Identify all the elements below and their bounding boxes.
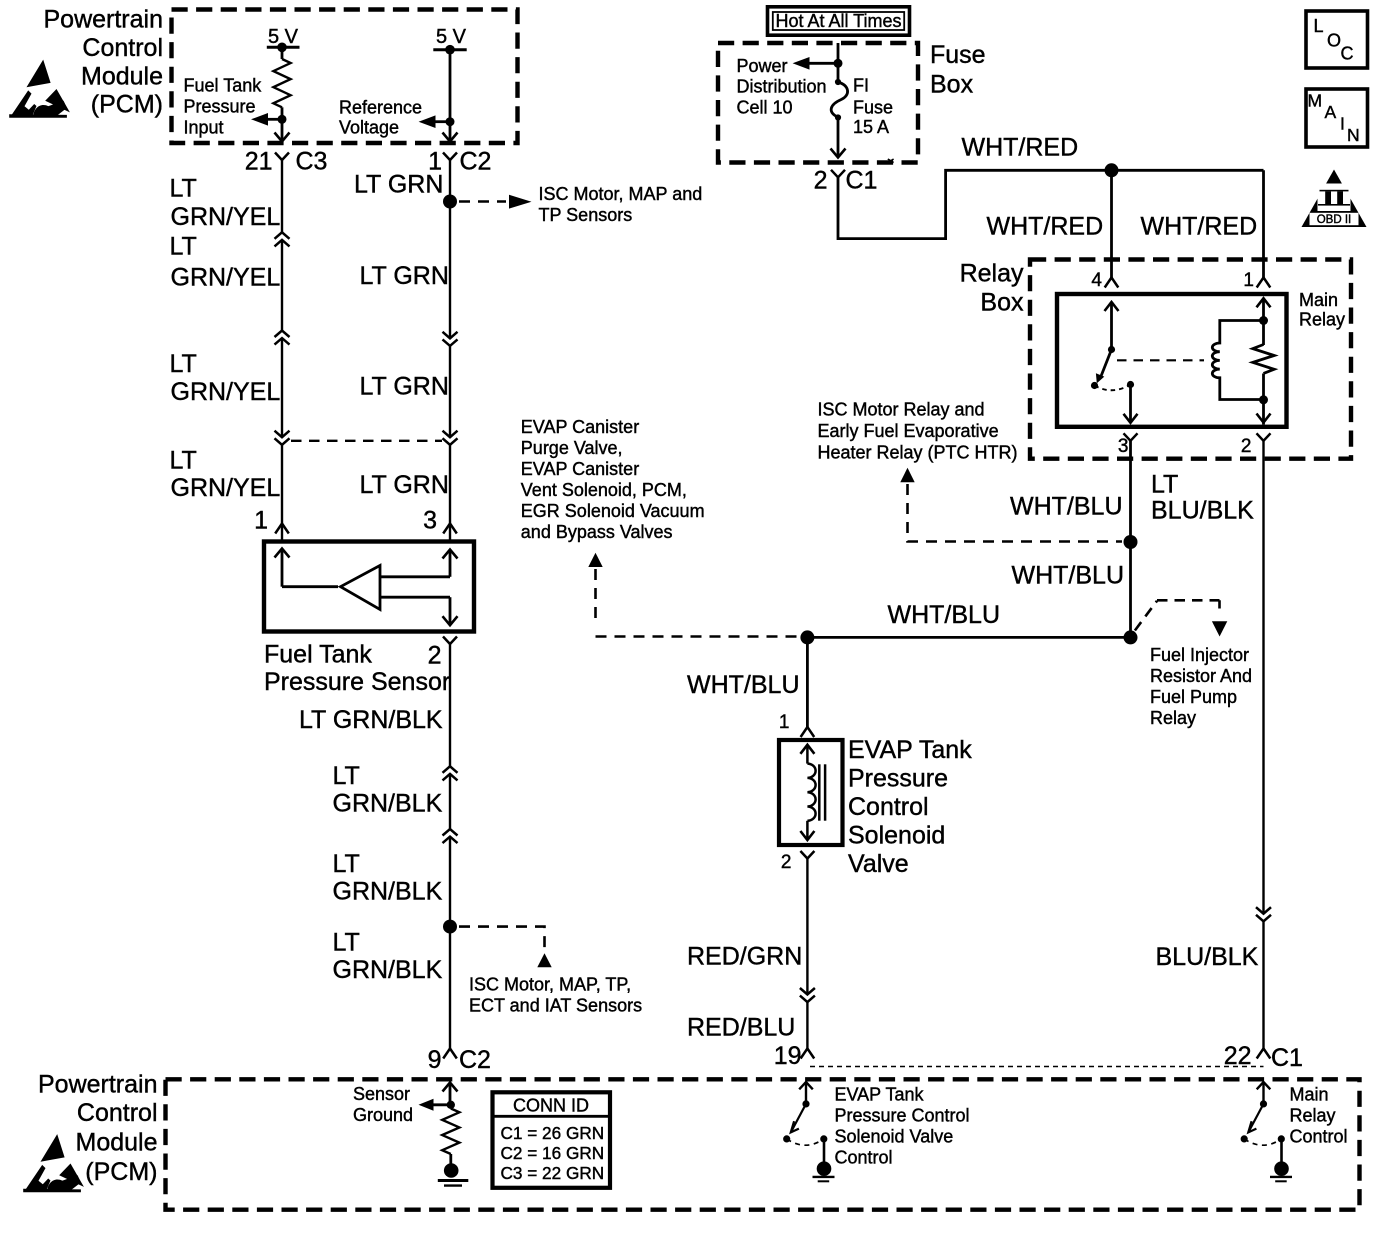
svg-text:Fuel Pump: Fuel Pump bbox=[1150, 687, 1237, 707]
wire WHT/BLU from relay pin 3 bbox=[1129, 441, 1132, 638]
svg-text:Control: Control bbox=[848, 793, 929, 821]
svg-text:Input: Input bbox=[184, 117, 224, 137]
connector at sensor pin 3 bbox=[443, 524, 457, 534]
svg-text:GRN/YEL: GRN/YEL bbox=[171, 264, 281, 292]
pin 2 of sensor bbox=[428, 637, 457, 670]
svg-text:ISC Motor, MAP and: ISC Motor, MAP and bbox=[539, 184, 703, 204]
svg-text:FI: FI bbox=[853, 76, 869, 96]
svg-text:WHT/RED: WHT/RED bbox=[962, 134, 1079, 162]
svg-text:Relay: Relay bbox=[960, 259, 1024, 287]
wire out of fuse + arrow bbox=[831, 118, 846, 158]
svg-text:WHT/RED: WHT/RED bbox=[987, 213, 1104, 241]
svg-text:LT GRN/BLK: LT GRN/BLK bbox=[299, 706, 443, 734]
svg-text:ISC Motor, MAP, TP,: ISC Motor, MAP, TP, bbox=[469, 974, 631, 994]
junction WHT/RED bbox=[1105, 163, 1119, 177]
svg-text:Fuse: Fuse bbox=[853, 97, 893, 117]
label: ISC Motor, MAP, TP, ECT and IAT Sensors bbox=[469, 974, 642, 1015]
Hot At All Times tag bbox=[768, 7, 910, 35]
svg-text:3: 3 bbox=[423, 507, 437, 535]
junction: LT GRN/BLK to other sensors bbox=[443, 920, 552, 968]
svg-text:2: 2 bbox=[1241, 436, 1252, 457]
inline connector marks (LT GRN/BLK) bbox=[443, 766, 458, 780]
ground symbol (sensor ground) bbox=[438, 1163, 469, 1185]
svg-text:GRN/YEL: GRN/YEL bbox=[171, 378, 281, 406]
svg-text:LT GRN: LT GRN bbox=[360, 262, 449, 290]
svg-text:EVAP Tank: EVAP Tank bbox=[835, 1085, 925, 1105]
svg-text:2: 2 bbox=[781, 852, 792, 873]
svg-text:Main: Main bbox=[1290, 1085, 1329, 1105]
dashed tap to ISC relay (arrow up) bbox=[900, 468, 1122, 542]
svg-text:GRN/BLK: GRN/BLK bbox=[333, 878, 443, 906]
label: Main Relay Control bbox=[1290, 1085, 1348, 1147]
fuse FI 15A symbol bbox=[831, 79, 847, 121]
inline connector marks (LT GRN) bbox=[443, 332, 458, 346]
relay pin 4 bbox=[1091, 270, 1118, 291]
svg-text:GRN/YEL: GRN/YEL bbox=[171, 474, 281, 502]
label: Reference Voltage bbox=[339, 98, 422, 138]
PCM (bottom) dashed box bbox=[166, 1079, 1360, 1209]
svg-text:WHT/BLU: WHT/BLU bbox=[687, 671, 800, 699]
wire LT GRN/YEL (lower section) bbox=[281, 445, 283, 540]
svg-text:GRN/YEL: GRN/YEL bbox=[171, 203, 281, 231]
pin 2 C1 connector (fuse box) bbox=[814, 166, 878, 194]
wire LT BLU/BLK + BLU/BLK from relay pin 2 bbox=[1262, 441, 1264, 914]
junction (ISC relay tap) bbox=[1124, 535, 1138, 549]
pin 21 C3 connector bbox=[245, 148, 328, 176]
svg-text:LT: LT bbox=[1151, 471, 1178, 499]
svg-text:Relay: Relay bbox=[1150, 708, 1196, 728]
svg-text:(PCM): (PCM) bbox=[91, 91, 163, 119]
5V supply node (left) bbox=[267, 26, 300, 52]
inline connector (BLU/BLK) bbox=[1256, 907, 1271, 921]
pin 22 C1 connector bbox=[1224, 1042, 1303, 1072]
svg-text:Fuel Tank: Fuel Tank bbox=[264, 640, 372, 668]
svg-text:Pressure: Pressure bbox=[184, 96, 256, 116]
svg-text:N: N bbox=[1347, 125, 1360, 145]
svg-text:EVAP Canister: EVAP Canister bbox=[521, 417, 639, 437]
svg-text:Relay: Relay bbox=[1299, 310, 1345, 330]
svg-text:LT: LT bbox=[170, 175, 197, 203]
svg-text:M: M bbox=[1308, 90, 1323, 110]
svg-text:O: O bbox=[1327, 30, 1341, 50]
svg-text:Box: Box bbox=[980, 289, 1024, 317]
svg-text:Reference: Reference bbox=[339, 98, 422, 118]
label: ISC Motor, MAP and TP Sensors bbox=[539, 184, 703, 225]
OBD II tag bbox=[1302, 170, 1367, 228]
valve pin 1 bbox=[779, 712, 814, 737]
svg-text:5 V: 5 V bbox=[436, 26, 467, 48]
svg-text:Control: Control bbox=[82, 34, 163, 62]
resistor (fuel tank pressure input pull-up) bbox=[273, 47, 290, 119]
wire WHT/BLU down to valve bbox=[687, 637, 807, 727]
label: Fuse Box bbox=[930, 41, 986, 98]
svg-text:Purge Valve,: Purge Valve, bbox=[521, 438, 623, 458]
wire labels LT GRN/YEL bbox=[170, 175, 281, 231]
in-line connector (left wire) bbox=[275, 431, 290, 445]
relay switch contacts bbox=[1091, 302, 1138, 423]
svg-text:EGR Solenoid Vacuum: EGR Solenoid Vacuum bbox=[521, 501, 705, 521]
node: Fuel Tank Pressure Input (arrow + junction) bbox=[251, 113, 287, 126]
junction: LT GRN to ISC/MAP/TP sensors bbox=[443, 195, 532, 209]
relay coil + resistor bbox=[1212, 298, 1274, 424]
svg-text:EVAP Tank: EVAP Tank bbox=[848, 736, 972, 764]
pins 1 and 3 of sensor bbox=[254, 507, 437, 535]
svg-text:Ground: Ground bbox=[353, 1105, 413, 1125]
pin 1 C2 connector bbox=[428, 148, 491, 176]
svg-text:15 A: 15 A bbox=[853, 117, 889, 137]
svg-text:C3: C3 bbox=[296, 148, 328, 176]
switch: EVAP Tank Pressure Control Solenoid Valve Control (PCM driver) bbox=[783, 1082, 834, 1181]
arrow out of PCM (right) bbox=[443, 133, 458, 142]
svg-text:Valve: Valve bbox=[848, 850, 909, 878]
svg-text:BLU/BLK: BLU/BLK bbox=[1151, 497, 1254, 525]
svg-text:BLU/BLK: BLU/BLK bbox=[1156, 943, 1259, 971]
svg-text:ISC Motor Relay and: ISC Motor Relay and bbox=[818, 400, 985, 420]
LOC tag bbox=[1306, 11, 1368, 68]
wire: PCM output to pin 21 (down arrow) bbox=[275, 119, 290, 141]
wire into fuse bbox=[837, 43, 840, 82]
svg-text:Pressure: Pressure bbox=[848, 765, 948, 793]
label: EVAP Tank Pressure Control Solenoid Valve Control bbox=[835, 1085, 970, 1168]
sensor ground input (arrow into PCM) bbox=[443, 1083, 458, 1105]
svg-text:1: 1 bbox=[1243, 270, 1254, 291]
ESD-sensitive symbol (top PCM) bbox=[9, 60, 70, 118]
dashed tap to Fuel Injector Resistor / Fuel Pump Relay (arrow down) bbox=[1135, 600, 1227, 636]
Relay Box dashed box bbox=[1030, 260, 1351, 459]
scan artifact mark bbox=[888, 159, 894, 163]
resistor (sensor ground) bbox=[442, 1105, 459, 1164]
inline connector marks (RED/GRN|RED/BLU) bbox=[800, 988, 815, 1002]
inline connector marks (LT GRN/YEL) bbox=[275, 232, 290, 246]
wire: 5V reference voltage bbox=[449, 50, 452, 142]
svg-text:EVAP Canister: EVAP Canister bbox=[521, 459, 639, 479]
svg-text:Control: Control bbox=[1290, 1127, 1348, 1147]
svg-text:LT: LT bbox=[333, 929, 360, 957]
svg-text:Fuse: Fuse bbox=[930, 41, 986, 69]
svg-text:9: 9 bbox=[428, 1046, 442, 1074]
module label: Powertrain Control Module (PCM) top bbox=[44, 6, 164, 119]
svg-text:Control: Control bbox=[77, 1099, 158, 1127]
svg-text:2: 2 bbox=[814, 166, 828, 194]
wire RED/GRN -> RED/BLU down to PCM pin 19 bbox=[806, 859, 808, 995]
CONN ID table bbox=[493, 1092, 611, 1188]
svg-text:Power: Power bbox=[737, 56, 788, 76]
svg-text:(PCM): (PCM) bbox=[85, 1158, 157, 1186]
ESD-sensitive symbol (bottom PCM) bbox=[23, 1134, 84, 1192]
svg-text:4: 4 bbox=[1091, 270, 1102, 291]
relay pin 3 bbox=[1118, 433, 1138, 457]
svg-text:WHT/BLU: WHT/BLU bbox=[1010, 493, 1123, 521]
PCM (top) dashed box bbox=[172, 10, 518, 144]
wire LT GRN/BLK (sensor pin 2 to PCM pin 9) bbox=[449, 644, 451, 766]
svg-text:Solenoid: Solenoid bbox=[848, 822, 945, 850]
svg-text:C: C bbox=[1341, 43, 1354, 63]
svg-text:3: 3 bbox=[1118, 436, 1129, 457]
in-line connector (right wire) bbox=[443, 431, 458, 445]
label: Relay Box bbox=[960, 259, 1024, 316]
dashed connector interface line bbox=[291, 440, 442, 442]
junction (horizontal WHT/BLU) bbox=[1124, 630, 1138, 644]
svg-text:A: A bbox=[1325, 102, 1337, 122]
svg-text:OBD II: OBD II bbox=[1317, 214, 1352, 226]
svg-text:1: 1 bbox=[779, 712, 790, 733]
svg-text:Main: Main bbox=[1299, 290, 1338, 310]
wire WHT/RED routing bbox=[838, 170, 1264, 238]
svg-text:RED/BLU: RED/BLU bbox=[687, 1013, 795, 1041]
wire to relay pin 1 bbox=[1262, 170, 1265, 277]
thin dashed connector line (C1 pins 19-22) bbox=[810, 1066, 1264, 1068]
valve pin 2 bbox=[781, 851, 814, 873]
svg-text:WHT/BLU: WHT/BLU bbox=[1012, 561, 1125, 589]
svg-text:Distribution: Distribution bbox=[737, 77, 827, 97]
label: Main Relay bbox=[1299, 290, 1345, 330]
svg-text:ECT and IAT Sensors: ECT and IAT Sensors bbox=[469, 996, 642, 1016]
svg-text:LT: LT bbox=[170, 350, 197, 378]
label: Fuel Tank Pressure Input bbox=[184, 76, 263, 138]
svg-text:WHT/RED: WHT/RED bbox=[1141, 213, 1258, 241]
svg-text:C1: C1 bbox=[846, 166, 878, 194]
svg-text:Relay: Relay bbox=[1290, 1106, 1336, 1126]
svg-text:19: 19 bbox=[774, 1042, 802, 1070]
svg-text:C2: C2 bbox=[460, 148, 492, 176]
svg-text:Module: Module bbox=[76, 1129, 158, 1157]
svg-text:LT GRN: LT GRN bbox=[354, 171, 443, 199]
pin 19 connector bbox=[774, 1042, 815, 1070]
svg-text:LT: LT bbox=[333, 850, 360, 878]
horizontal wire WHT/BLU bbox=[807, 636, 1130, 639]
MAIN tag bbox=[1306, 89, 1368, 147]
svg-text:Powertrain: Powertrain bbox=[38, 1071, 158, 1099]
label: Fuel Injector Resistor And Fuel Pump Relay bbox=[1150, 645, 1252, 728]
svg-text:Voltage: Voltage bbox=[339, 117, 399, 137]
svg-text:C1 = 26 GRN: C1 = 26 GRN bbox=[501, 1123, 605, 1143]
label: FI Fuse 15 A bbox=[853, 76, 893, 137]
label: Power Distribution Cell 10 bbox=[737, 56, 827, 117]
svg-text:Fuel Tank: Fuel Tank bbox=[184, 76, 263, 96]
svg-text:GRN/BLK: GRN/BLK bbox=[333, 790, 443, 818]
switch: Main Relay Control (PCM driver) bbox=[1241, 1082, 1292, 1181]
label: ISC Motor Relay and Early Fuel Evaporative Heater Relay (PTC HTR) bbox=[818, 400, 1018, 463]
svg-text:LT: LT bbox=[170, 233, 197, 261]
svg-text:Early Fuel Evaporative: Early Fuel Evaporative bbox=[818, 421, 999, 441]
svg-text:LT: LT bbox=[170, 447, 197, 475]
wire LT GRN/YEL (pin 21 to sensor pin 1) bbox=[281, 160, 283, 232]
svg-text:Box: Box bbox=[930, 70, 974, 98]
relay pin 2 bbox=[1241, 433, 1271, 457]
svg-text:TP Sensors: TP Sensors bbox=[539, 205, 633, 225]
wire LT GRN (pin 1 C2 to sensor pin 3) bbox=[449, 160, 451, 338]
svg-text:2: 2 bbox=[428, 642, 442, 670]
label: EVAP Canister Purge Valve ... bbox=[521, 417, 705, 542]
svg-text:CONN ID: CONN ID bbox=[513, 1096, 589, 1116]
svg-text:1: 1 bbox=[254, 507, 268, 535]
node: Sensor Ground (arrow + junction) bbox=[419, 1099, 455, 1111]
svg-text:Powertrain: Powertrain bbox=[44, 6, 164, 34]
svg-text:RED/GRN: RED/GRN bbox=[687, 943, 802, 971]
Fuel Tank Pressure Sensor (box + amplifier) bbox=[264, 542, 474, 632]
svg-text:Solenoid Valve: Solenoid Valve bbox=[835, 1127, 954, 1147]
node: Power Distribution Cell 10 (arrow + junction) bbox=[793, 57, 843, 70]
svg-text:21: 21 bbox=[245, 148, 273, 176]
svg-text:and Bypass Valves: and Bypass Valves bbox=[521, 522, 673, 542]
svg-text:I: I bbox=[1340, 114, 1345, 134]
svg-text:L: L bbox=[1314, 16, 1324, 36]
label: EVAP Tank Pressure Control Solenoid Valve bbox=[848, 736, 972, 878]
svg-text:C2 = 16 GRN: C2 = 16 GRN bbox=[501, 1143, 605, 1163]
label: Sensor Ground bbox=[353, 1084, 413, 1125]
Main Relay box bbox=[1057, 294, 1287, 427]
node: Reference Voltage (arrow + junction) bbox=[419, 115, 455, 128]
svg-text:Vent Solenoid, PCM,: Vent Solenoid, PCM, bbox=[521, 480, 687, 500]
svg-text:Resistor And: Resistor And bbox=[1150, 666, 1252, 686]
dashed link switch-coil bbox=[1117, 359, 1204, 361]
svg-text:WHT/BLU: WHT/BLU bbox=[888, 601, 1001, 629]
svg-text:Sensor: Sensor bbox=[353, 1084, 410, 1104]
svg-text:Pressure Control: Pressure Control bbox=[835, 1106, 970, 1126]
svg-text:C1: C1 bbox=[1271, 1044, 1303, 1072]
wire to relay pin 4 bbox=[1110, 170, 1113, 277]
connector at sensor pin 1 bbox=[275, 524, 289, 534]
svg-text:LT: LT bbox=[333, 762, 360, 790]
svg-text:Control: Control bbox=[835, 1148, 893, 1168]
svg-text:C2: C2 bbox=[459, 1046, 491, 1074]
Fuse Box dashed box bbox=[718, 43, 918, 163]
svg-text:Cell 10: Cell 10 bbox=[737, 97, 793, 117]
pin 9 C2 connector bbox=[428, 1046, 491, 1074]
svg-text:Fuel Injector: Fuel Injector bbox=[1150, 645, 1249, 665]
label: Fuel Tank Pressure Sensor bbox=[264, 640, 450, 696]
svg-text:LT GRN: LT GRN bbox=[360, 471, 449, 499]
svg-text:GRN/BLK: GRN/BLK bbox=[333, 956, 443, 984]
svg-text:Module: Module bbox=[81, 62, 163, 90]
svg-text:Hot At All Times: Hot At All Times bbox=[775, 11, 901, 31]
dashed tap to EVAP canister valves (arrow up) bbox=[588, 553, 799, 637]
5V supply node (right) bbox=[433, 26, 466, 55]
svg-text:C3 = 22 GRN: C3 = 22 GRN bbox=[501, 1163, 605, 1183]
svg-text:Pressure Sensor: Pressure Sensor bbox=[264, 668, 450, 696]
svg-text:Heater Relay (PTC HTR): Heater Relay (PTC HTR) bbox=[818, 442, 1018, 462]
EVAP Tank Pressure Control Solenoid Valve (coil) bbox=[779, 740, 843, 845]
module label: Powertrain Control Module (PCM) bottom bbox=[38, 1071, 158, 1187]
relay pin 1 bbox=[1243, 270, 1270, 291]
svg-text:LT GRN: LT GRN bbox=[360, 373, 449, 401]
